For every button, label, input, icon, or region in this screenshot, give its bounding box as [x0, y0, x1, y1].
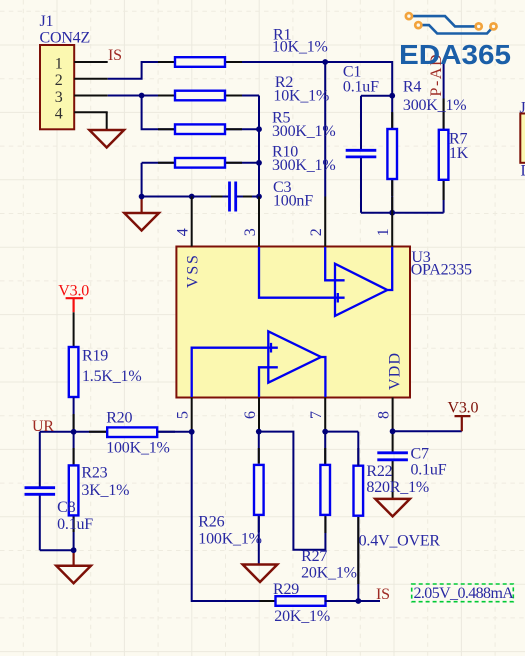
svg-text:10K_1%: 10K_1% — [272, 39, 328, 56]
svg-text:20K_1%: 20K_1% — [301, 565, 357, 582]
svg-text:C7: C7 — [411, 446, 429, 463]
svg-text:5: 5 — [175, 411, 192, 419]
svg-text:0.1uF: 0.1uF — [411, 461, 447, 478]
svg-text:2: 2 — [55, 72, 63, 89]
svg-text:OPA2335: OPA2335 — [411, 262, 472, 279]
svg-text:300K_1%: 300K_1% — [272, 123, 335, 140]
svg-text:R19: R19 — [82, 348, 108, 365]
svg-text:R27: R27 — [301, 548, 327, 565]
svg-text:1: 1 — [375, 228, 392, 236]
svg-text:2.05V_0.488mA: 2.05V_0.488mA — [414, 585, 515, 602]
svg-text:100K_1%: 100K_1% — [106, 439, 169, 456]
svg-text:820R_1%: 820R_1% — [366, 479, 429, 496]
svg-text:0.1uF: 0.1uF — [343, 78, 379, 95]
svg-text:UR: UR — [32, 418, 54, 435]
svg-text:DB: DB — [521, 162, 525, 179]
svg-text:VDD: VDD — [387, 352, 404, 390]
svg-text:300K_1%: 300K_1% — [272, 157, 335, 174]
svg-text:8: 8 — [376, 411, 393, 419]
svg-text:1.5K_1%: 1.5K_1% — [82, 368, 141, 385]
svg-text:2: 2 — [308, 228, 325, 236]
svg-text:10K_1%: 10K_1% — [273, 88, 329, 105]
svg-text:VSS: VSS — [185, 253, 202, 288]
svg-text:6: 6 — [242, 411, 259, 419]
svg-text:300K_1%: 300K_1% — [403, 97, 466, 114]
svg-text:R29: R29 — [273, 581, 299, 598]
svg-text:CON4Z: CON4Z — [40, 29, 91, 46]
svg-text:V3.0: V3.0 — [58, 283, 89, 300]
svg-text:100K_1%: 100K_1% — [198, 531, 261, 548]
svg-text:4: 4 — [55, 106, 63, 123]
svg-text:R26: R26 — [198, 514, 224, 531]
svg-text:J1: J1 — [40, 13, 54, 30]
svg-text:R23: R23 — [81, 465, 107, 482]
svg-text:C8: C8 — [57, 499, 75, 516]
svg-text:V3.0: V3.0 — [448, 400, 479, 417]
svg-text:J4: J4 — [520, 100, 525, 117]
svg-text:EDA365: EDA365 — [399, 39, 511, 70]
svg-text:7: 7 — [308, 411, 325, 419]
svg-text:4: 4 — [175, 228, 192, 236]
svg-text:R4: R4 — [403, 78, 421, 95]
svg-text:20K_1%: 20K_1% — [274, 608, 330, 625]
svg-text:R20: R20 — [106, 410, 132, 427]
svg-text:IS: IS — [376, 586, 390, 603]
svg-text:0.4V_OVER: 0.4V_OVER — [359, 533, 441, 550]
svg-text:1K: 1K — [449, 145, 469, 162]
svg-text:1: 1 — [55, 55, 63, 72]
svg-text:0.1uF: 0.1uF — [57, 516, 93, 533]
svg-text:IS: IS — [108, 47, 122, 64]
svg-text:3K_1%: 3K_1% — [81, 482, 129, 499]
svg-text:100nF: 100nF — [273, 193, 313, 210]
svg-text:3: 3 — [55, 89, 63, 106]
svg-text:3: 3 — [242, 228, 259, 236]
svg-text:R22: R22 — [366, 463, 392, 480]
